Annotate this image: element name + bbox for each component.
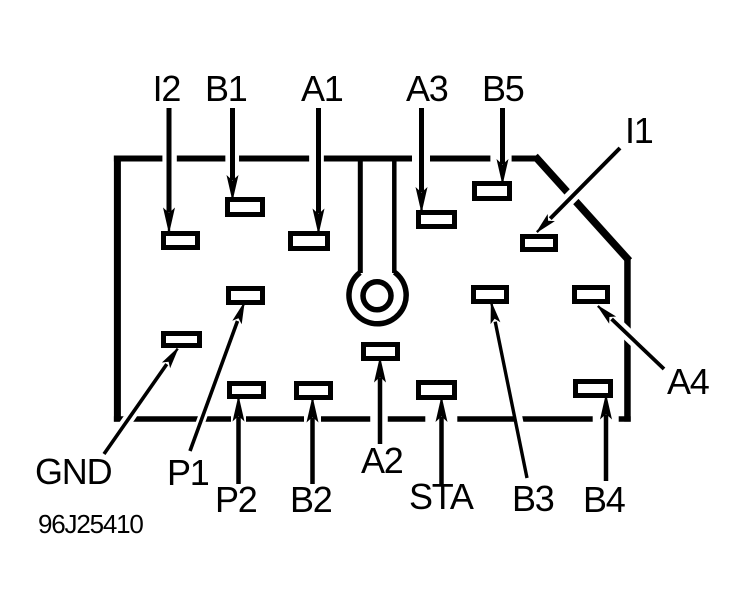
label 96J25410	[38, 511, 143, 537]
connector outline: left edge	[114, 156, 121, 422]
gap in bottom edge at arrow P2	[231, 408, 246, 430]
key cylinder slot right wall	[392, 157, 397, 273]
arrow A1	[316, 108, 321, 214]
label I1	[625, 113, 653, 149]
gap in bottom edge at arrow GND	[121, 408, 136, 430]
pin P1	[229, 289, 263, 303]
label A3	[406, 71, 448, 107]
label STA	[409, 479, 473, 515]
label B5	[482, 71, 524, 107]
label P1	[167, 455, 209, 491]
gap in bottom edge at arrow B4	[593, 408, 619, 430]
label P2	[215, 482, 257, 518]
gap in bottom edge at arrow STA	[425, 408, 457, 430]
pin B3	[474, 288, 507, 302]
pin STA	[419, 383, 455, 398]
arrow B4	[604, 415, 609, 482]
pin A1	[291, 234, 328, 249]
arrow B2	[310, 418, 315, 485]
pin GND	[164, 334, 200, 346]
gap in right edge at arrow A4	[618, 325, 637, 343]
pin A4	[575, 288, 608, 302]
gap in bottom edge at arrow B2	[304, 408, 321, 430]
arrow P1	[190, 321, 238, 451]
gap in bottom edge at arrow B3	[516, 408, 521, 430]
arrow GND	[104, 364, 167, 454]
connector outline: right edge	[624, 257, 631, 422]
arrow I2	[167, 108, 172, 213]
label A2	[361, 443, 403, 479]
pin B2	[297, 384, 331, 398]
key cylinder slot left wall	[358, 157, 363, 273]
arrow P2	[236, 417, 241, 485]
label B1	[205, 71, 247, 107]
pin A3	[419, 213, 455, 227]
gap in bottom edge at arrow A2	[370, 408, 388, 430]
gap in top edge at arrow A1	[309, 149, 324, 168]
gap in top edge at arrow I2	[162, 149, 176, 168]
gap in bottom edge at arrow P1	[198, 408, 206, 430]
label A1	[301, 71, 343, 107]
arrow A3	[419, 108, 424, 192]
pin B5	[475, 184, 510, 199]
label B4	[583, 482, 625, 518]
arrow B3	[495, 322, 527, 478]
key cylinder inner circle	[363, 282, 391, 310]
arrow B1	[230, 108, 235, 180]
arrow I1	[550, 148, 620, 219]
pin I2	[164, 234, 198, 248]
connector outline: top edge	[114, 156, 539, 162]
connector outline: bottom edge	[114, 416, 631, 422]
pin A2	[364, 345, 398, 359]
label A4	[667, 364, 709, 400]
label B3	[512, 481, 554, 517]
arrow A2	[378, 378, 383, 445]
pin P2	[230, 384, 264, 397]
arrow A4	[612, 319, 664, 369]
arrow B5	[500, 108, 505, 164]
pin I1	[523, 237, 556, 250]
label I2	[153, 71, 181, 107]
label GND	[35, 454, 111, 490]
pin B4	[576, 382, 611, 396]
label B2	[290, 482, 332, 518]
gap in chamfer at arrow I1	[562, 189, 579, 206]
gap in top edge at arrow A3	[412, 149, 430, 168]
connector outline: chamfered corner	[535, 156, 629, 261]
gap in top edge at arrow B1	[225, 149, 239, 168]
arrow STA	[439, 417, 444, 484]
gap in top edge at arrow B5	[490, 149, 511, 168]
pin B1	[228, 200, 263, 215]
key cylinder outer ring (open at slot)	[349, 272, 406, 324]
